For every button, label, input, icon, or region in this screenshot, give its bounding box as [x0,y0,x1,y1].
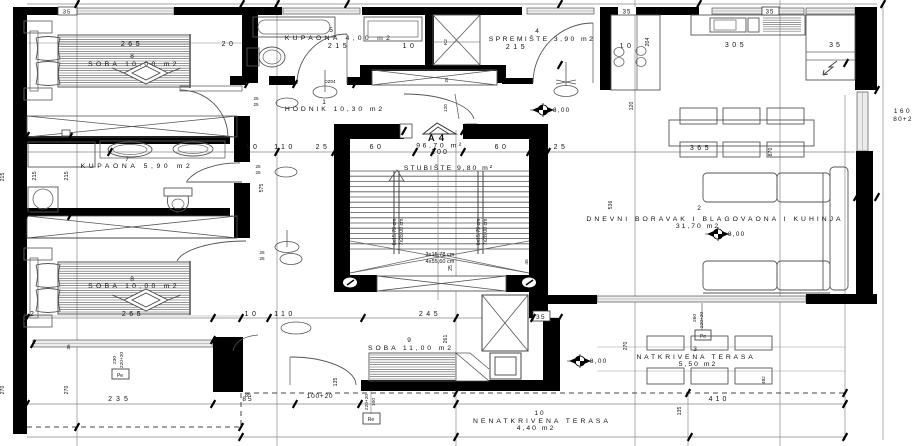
svg-text:9: 9 [407,337,411,344]
svg-text:35: 35 [766,10,775,16]
svg-text:220+20: 220+20 [119,352,125,368]
svg-text:2: 2 [697,205,701,212]
svg-text:220+20: 220+20 [364,394,370,410]
svg-text:135: 135 [677,407,683,416]
svg-text:85: 85 [245,393,251,399]
svg-text:25: 25 [554,144,569,151]
svg-text:536: 536 [608,201,614,210]
svg-text:60: 60 [495,144,510,151]
svg-text:60: 60 [370,144,385,151]
svg-text:270: 270 [0,386,6,395]
svg-text:110: 110 [274,311,296,318]
svg-text:3: 3 [693,346,697,353]
svg-text:215: 215 [32,171,38,180]
svg-text:SOBA 10,00 m2: SOBA 10,00 m2 [88,283,180,290]
svg-text:25: 25 [253,102,259,107]
svg-text:8: 8 [130,53,134,60]
svg-text:NENATKRIVENA TERASA: NENATKRIVENA TERASA [473,418,611,425]
svg-text:25: 25 [316,144,331,151]
svg-text:265: 265 [121,41,143,48]
svg-text:35: 35 [66,344,71,350]
svg-text:5,50 m2: 5,50 m2 [679,361,718,368]
svg-text:10: 10 [620,43,635,50]
svg-text:35: 35 [63,9,71,15]
svg-text:DZ04: DZ04 [324,79,336,84]
svg-text:261: 261 [443,335,449,344]
svg-text:4x55,60 cm: 4x55,60 cm [426,259,455,265]
svg-text:7x28,00 cm: 7x28,00 cm [483,219,489,246]
svg-text:8,00: 8,00 [590,358,607,365]
svg-text:7x28,00 cm: 7x28,00 cm [399,219,405,246]
svg-text:100: 100 [371,398,377,406]
svg-text:80+2: 80+2 [893,116,912,123]
svg-text:35: 35 [536,314,546,321]
svg-text:215: 215 [506,44,528,51]
svg-text:410: 410 [709,396,730,403]
svg-text:4: 4 [535,28,539,35]
svg-text:270: 270 [64,386,70,395]
svg-text:25: 25 [255,170,261,175]
svg-text:204: 204 [645,38,651,47]
svg-text:25: 25 [259,256,265,261]
svg-text:6x15,79 cm: 6x15,79 cm [392,219,398,246]
svg-text:215: 215 [0,173,6,182]
svg-text:215: 215 [64,171,70,180]
svg-text:220+20: 220+20 [699,312,705,328]
svg-text:270: 270 [623,342,629,351]
svg-text:6x15,79 cm: 6x15,79 cm [476,219,482,246]
svg-text:235: 235 [108,396,132,403]
svg-text:10: 10 [246,144,261,151]
svg-text:3x15,78 cm: 3x15,78 cm [426,252,455,258]
svg-text:K2: K2 [443,39,449,45]
svg-text:Re: Re [368,417,375,423]
svg-text:10: 10 [534,410,545,417]
svg-text:230: 230 [112,356,118,364]
svg-text:4,40 m2: 4,40 m2 [517,425,556,432]
svg-text:SPREMIŠTE 3,90 m2: SPREMIŠTE 3,90 m2 [489,34,596,43]
svg-text:160: 160 [894,108,912,115]
svg-text:365: 365 [690,145,712,152]
svg-text:22: 22 [23,311,38,318]
svg-text:HODNIK 10,30 m2: HODNIK 10,30 m2 [285,106,385,113]
svg-text:20: 20 [222,41,237,48]
svg-text:45: 45 [524,259,530,265]
svg-text:10: 10 [403,43,418,50]
svg-text:575: 575 [259,184,265,193]
svg-text:25: 25 [444,77,449,83]
svg-text:25: 25 [448,265,454,271]
svg-text:35: 35 [829,42,843,49]
svg-text:260: 260 [692,314,698,322]
svg-text:8,00: 8,00 [728,231,745,238]
svg-text:Pe: Pe [117,373,123,379]
svg-text:STUBIŠTE 9,80 m²: STUBIŠTE 9,80 m² [404,163,494,172]
svg-text:25: 25 [253,96,259,101]
svg-text:Pe: Pe [700,334,706,340]
svg-text:5: 5 [329,27,333,34]
svg-text:10: 10 [245,311,260,318]
svg-text:120: 120 [629,102,635,111]
svg-text:31,70 m2: 31,70 m2 [676,223,720,230]
svg-text:SOBA 11,00 m2: SOBA 11,00 m2 [368,345,454,352]
svg-text:8: 8 [130,276,134,283]
svg-text:DNEVNI BORAVAK I BLAGOVAONA I: DNEVNI BORAVAK I BLAGOVAONA I KUHINJA [586,216,843,223]
svg-text:265: 265 [122,311,144,318]
svg-text:NATKRIVENA TERASA: NATKRIVENA TERASA [636,354,755,361]
svg-text:135: 135 [333,378,339,387]
svg-text:482: 482 [761,376,766,384]
svg-text:7: 7 [125,156,129,163]
svg-text:870: 870 [768,148,774,157]
svg-text:100+20: 100+20 [307,393,334,400]
svg-text:245: 245 [419,311,441,318]
svg-text:25: 25 [259,250,265,255]
svg-text:35: 35 [623,10,632,16]
svg-text:8,00: 8,00 [553,107,570,114]
svg-text:1: 1 [322,99,326,106]
svg-text:SOBA 10,00 m2: SOBA 10,00 m2 [88,61,180,68]
svg-text:120: 120 [443,104,448,112]
svg-text:305: 305 [725,42,747,49]
svg-text:KUPAONA 5,90 m2: KUPAONA 5,90 m2 [81,163,194,170]
svg-text:25: 25 [255,164,261,169]
